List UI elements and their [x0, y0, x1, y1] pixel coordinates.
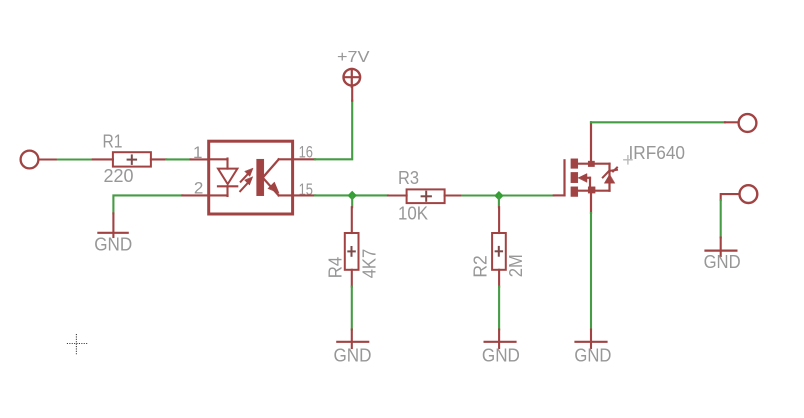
output pin J2 [725, 114, 756, 132]
svg-text:IRF640: IRF640 [629, 143, 686, 163]
origin cross of Q1 [624, 156, 632, 164]
wire input to R1 [58, 158, 93, 160]
wire R4 to ground [351, 287, 353, 330]
wire R1 to opto pin1 [166, 158, 190, 160]
svg-text:2: 2 [194, 178, 203, 197]
wire junction A to R4 [351, 196, 353, 208]
input pin J1 [21, 151, 58, 169]
wire drain to output pin [591, 121, 725, 123]
pin 15 lead [293, 194, 316, 196]
svg-text:GND: GND [704, 252, 741, 272]
svg-text:220: 220 [104, 166, 134, 186]
svg-text:GND: GND [94, 234, 132, 254]
svg-text:R1: R1 [103, 132, 123, 152]
resistor R2 [492, 207, 506, 286]
LED inside OK1 [218, 159, 237, 197]
optocoupler OK1 [182, 141, 292, 214]
wire R2 to ground [498, 287, 500, 330]
wire pin16 to +7V [315, 101, 352, 160]
svg-text:4K7: 4K7 [359, 249, 379, 279]
ground GND2 [337, 330, 368, 349]
svg-text:GND: GND [482, 345, 520, 365]
svg-text:2M: 2M [506, 254, 526, 277]
svg-text:10K: 10K [398, 203, 428, 223]
pin 16 lead [293, 158, 316, 160]
ground GND3 [485, 330, 516, 349]
ground GND4 [576, 330, 607, 349]
junction node A [348, 191, 357, 200]
phototransistor inside OK1 [257, 159, 293, 196]
supply +7V [344, 69, 361, 101]
transistor Q1 IRF640 [565, 122, 618, 213]
wire GND stub to opto pin2 [113, 195, 182, 213]
wire source to ground [590, 213, 592, 330]
svg-text:GND: GND [334, 345, 372, 365]
svg-text:R3: R3 [398, 168, 419, 188]
svg-text:R2: R2 [470, 255, 490, 277]
wire J3 to ground [720, 200, 722, 237]
junction node B [494, 191, 503, 200]
wire gate lead [554, 194, 565, 196]
resistor R4 [345, 207, 359, 286]
svg-text:GND: GND [574, 345, 611, 365]
ground GND1 (left) [98, 213, 127, 237]
pin J3 (right lower) [721, 185, 758, 203]
svg-text:R4: R4 [325, 257, 345, 279]
light arrows inside OK1 [240, 168, 253, 191]
wire pin15 to R3 [315, 194, 388, 196]
resistor R1 [93, 152, 166, 166]
wire junction B to R2 [498, 196, 500, 208]
wire R3 to gate [462, 194, 554, 196]
origin cross of sheet [67, 334, 88, 355]
resistor R3 [388, 189, 462, 203]
svg-text:1: 1 [193, 143, 202, 162]
ground GND5 [706, 238, 737, 257]
svg-text:+7V: +7V [337, 49, 370, 66]
